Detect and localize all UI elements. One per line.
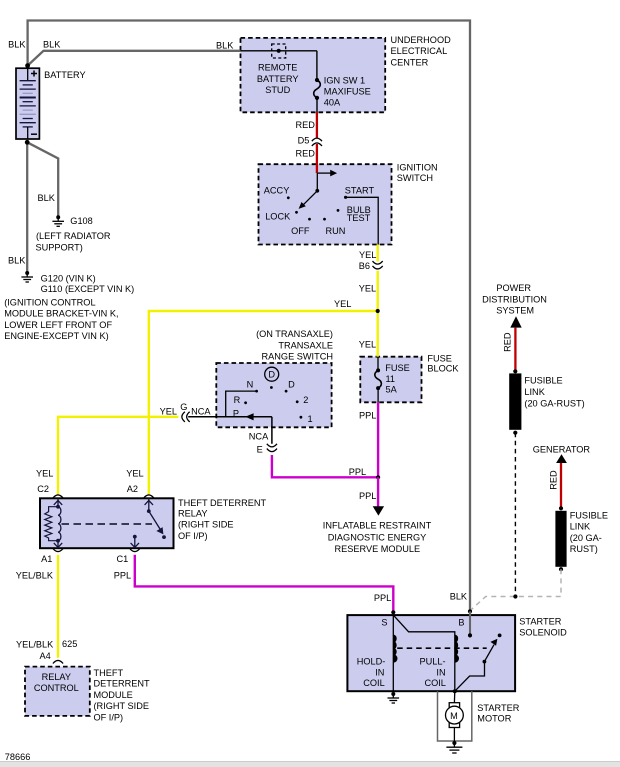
svg-text:YEL: YEL xyxy=(160,406,177,416)
svg-text:2: 2 xyxy=(303,395,308,405)
svg-text:OF I/P): OF I/P) xyxy=(178,531,208,541)
svg-text:LINK: LINK xyxy=(570,522,591,532)
svg-text:C2: C2 xyxy=(37,484,49,494)
svg-text:YEL: YEL xyxy=(126,468,143,478)
svg-text:G120 (VIN K): G120 (VIN K) xyxy=(41,273,96,283)
svg-text:NCA: NCA xyxy=(191,406,211,416)
svg-text:G110 (EXCEPT VIN K): G110 (EXCEPT VIN K) xyxy=(41,284,135,294)
svg-text:IGNITION: IGNITION xyxy=(397,163,438,173)
svg-text:BLK: BLK xyxy=(8,40,26,50)
svg-text:PULL-: PULL- xyxy=(420,656,446,666)
svg-text:BATTERY: BATTERY xyxy=(257,74,299,84)
svg-text:YEL/BLK: YEL/BLK xyxy=(16,571,54,581)
svg-text:RED: RED xyxy=(296,148,316,158)
svg-text:ENGINE-EXCEPT VIN K): ENGINE-EXCEPT VIN K) xyxy=(4,331,109,341)
svg-text:THEFT DETERRENT: THEFT DETERRENT xyxy=(178,498,267,508)
svg-text:S: S xyxy=(381,617,387,627)
svg-text:LOCK: LOCK xyxy=(265,211,291,221)
svg-text:G: G xyxy=(180,402,187,412)
svg-text:LINK: LINK xyxy=(524,387,545,397)
svg-text:BLK: BLK xyxy=(38,193,56,203)
svg-text:11: 11 xyxy=(386,374,396,384)
svg-text:D: D xyxy=(288,380,295,390)
svg-text:SYSTEM: SYSTEM xyxy=(496,306,534,316)
svg-text:1: 1 xyxy=(307,414,312,424)
svg-text:START: START xyxy=(345,186,375,196)
svg-text:SWITCH: SWITCH xyxy=(397,173,433,183)
svg-text:(LEFT RADIATOR: (LEFT RADIATOR xyxy=(36,231,111,241)
svg-text:SOLENOID: SOLENOID xyxy=(519,627,567,637)
svg-text:STARTER: STARTER xyxy=(477,703,519,713)
svg-text:PPL: PPL xyxy=(374,593,391,603)
svg-text:A2: A2 xyxy=(127,484,138,494)
svg-text:RED: RED xyxy=(296,120,316,130)
svg-text:RUST): RUST) xyxy=(570,544,598,554)
svg-text:INFLATABLE RESTRAINT: INFLATABLE RESTRAINT xyxy=(323,521,432,531)
svg-text:M: M xyxy=(450,711,458,721)
svg-text:CONTROL: CONTROL xyxy=(34,683,79,693)
svg-text:BLOCK: BLOCK xyxy=(427,364,459,374)
svg-text:PPL: PPL xyxy=(359,411,376,421)
svg-text:BLK: BLK xyxy=(450,592,468,602)
svg-text:THEFT: THEFT xyxy=(94,668,124,678)
svg-text:P: P xyxy=(233,408,239,418)
svg-text:IN: IN xyxy=(436,668,445,678)
svg-text:ACCY: ACCY xyxy=(264,186,290,196)
svg-text:STUD: STUD xyxy=(265,85,290,95)
svg-text:PPL: PPL xyxy=(114,571,131,581)
svg-text:D5: D5 xyxy=(298,136,310,146)
svg-text:CENTER: CENTER xyxy=(391,57,429,67)
svg-text:POWER: POWER xyxy=(496,283,531,293)
svg-text:G108: G108 xyxy=(70,216,92,226)
svg-text:FUSE: FUSE xyxy=(427,353,452,363)
svg-text:SUPPORT): SUPPORT) xyxy=(36,242,83,252)
svg-text:(ON TRANSAXLE): (ON TRANSAXLE) xyxy=(256,329,333,339)
svg-text:COIL: COIL xyxy=(363,678,384,688)
svg-text:REMOTE: REMOTE xyxy=(258,63,297,73)
svg-text:R: R xyxy=(234,395,241,405)
svg-text:DISTRIBUTION: DISTRIBUTION xyxy=(482,294,547,304)
svg-text:BATTERY: BATTERY xyxy=(44,70,86,80)
svg-text:YEL: YEL xyxy=(359,284,376,294)
svg-text:YEL: YEL xyxy=(36,468,53,478)
svg-text:GENERATOR: GENERATOR xyxy=(533,445,591,455)
svg-text:5A: 5A xyxy=(386,385,398,395)
svg-text:YEL: YEL xyxy=(334,299,351,309)
svg-text:(RIGHT SIDE: (RIGHT SIDE xyxy=(94,701,149,711)
svg-text:B6: B6 xyxy=(359,261,370,271)
svg-text:N: N xyxy=(247,379,254,389)
svg-text:IGN SW 1: IGN SW 1 xyxy=(324,75,365,85)
svg-text:RELAY: RELAY xyxy=(42,672,71,682)
svg-text:40A: 40A xyxy=(324,97,341,107)
svg-text:RANGE SWITCH: RANGE SWITCH xyxy=(262,352,333,362)
svg-text:UNDERHOOD: UNDERHOOD xyxy=(391,35,452,45)
svg-text:PPL: PPL xyxy=(349,467,366,477)
svg-text:DIAGNOSTIC ENERGY: DIAGNOSTIC ENERGY xyxy=(328,533,427,543)
svg-text:BLK: BLK xyxy=(43,40,61,50)
svg-text:MODULE: MODULE xyxy=(94,690,133,700)
svg-text:(IGNITION CONTROL: (IGNITION CONTROL xyxy=(4,298,95,308)
svg-text:D: D xyxy=(268,370,275,380)
svg-text:RELAY: RELAY xyxy=(178,508,207,518)
svg-text:E: E xyxy=(257,444,263,454)
svg-text:COIL: COIL xyxy=(424,678,445,688)
svg-text:MODULE BRACKET-VIN K,: MODULE BRACKET-VIN K, xyxy=(4,309,118,319)
svg-text:RUN: RUN xyxy=(326,226,346,236)
svg-text:YEL/BLK: YEL/BLK xyxy=(16,639,54,649)
svg-text:TEST: TEST xyxy=(347,213,371,223)
svg-text:YEL: YEL xyxy=(359,250,376,260)
svg-text:YEL: YEL xyxy=(359,339,376,349)
svg-text:PPL: PPL xyxy=(359,491,376,501)
svg-text:RESERVE MODULE: RESERVE MODULE xyxy=(334,544,420,554)
svg-text:625: 625 xyxy=(62,639,77,649)
svg-text:RED: RED xyxy=(548,470,558,490)
svg-text:MOTOR: MOTOR xyxy=(477,713,511,723)
svg-text:LOWER LEFT FRONT OF: LOWER LEFT FRONT OF xyxy=(4,320,112,330)
svg-text:MAXIFUSE: MAXIFUSE xyxy=(324,87,371,97)
svg-text:HOLD-: HOLD- xyxy=(357,656,386,666)
svg-text:FUSE: FUSE xyxy=(385,363,410,373)
svg-text:OFF: OFF xyxy=(291,226,310,236)
svg-text:(20 GA-RUST): (20 GA-RUST) xyxy=(524,399,584,409)
svg-text:78666: 78666 xyxy=(5,752,31,762)
svg-text:FUSIBLE: FUSIBLE xyxy=(570,511,608,521)
svg-text:FUSIBLE: FUSIBLE xyxy=(524,375,562,385)
svg-text:C1: C1 xyxy=(117,554,129,564)
svg-text:A1: A1 xyxy=(41,554,52,564)
svg-text:STARTER: STARTER xyxy=(519,617,561,627)
svg-text:B: B xyxy=(458,617,464,627)
svg-text:BLK: BLK xyxy=(8,256,26,266)
svg-text:OF I/P): OF I/P) xyxy=(94,712,124,722)
svg-text:TRANSAXLE: TRANSAXLE xyxy=(278,340,333,350)
svg-text:(20 GA-: (20 GA- xyxy=(570,533,602,543)
svg-text:NCA: NCA xyxy=(249,432,269,442)
svg-text:A4: A4 xyxy=(40,651,51,661)
svg-text:BLK: BLK xyxy=(216,41,234,51)
svg-text:ELECTRICAL: ELECTRICAL xyxy=(391,46,448,56)
svg-text:IN: IN xyxy=(375,668,384,678)
svg-text:RED: RED xyxy=(502,332,512,352)
svg-text:DETERRENT: DETERRENT xyxy=(94,679,151,689)
svg-text:(RIGHT SIDE: (RIGHT SIDE xyxy=(178,520,233,530)
